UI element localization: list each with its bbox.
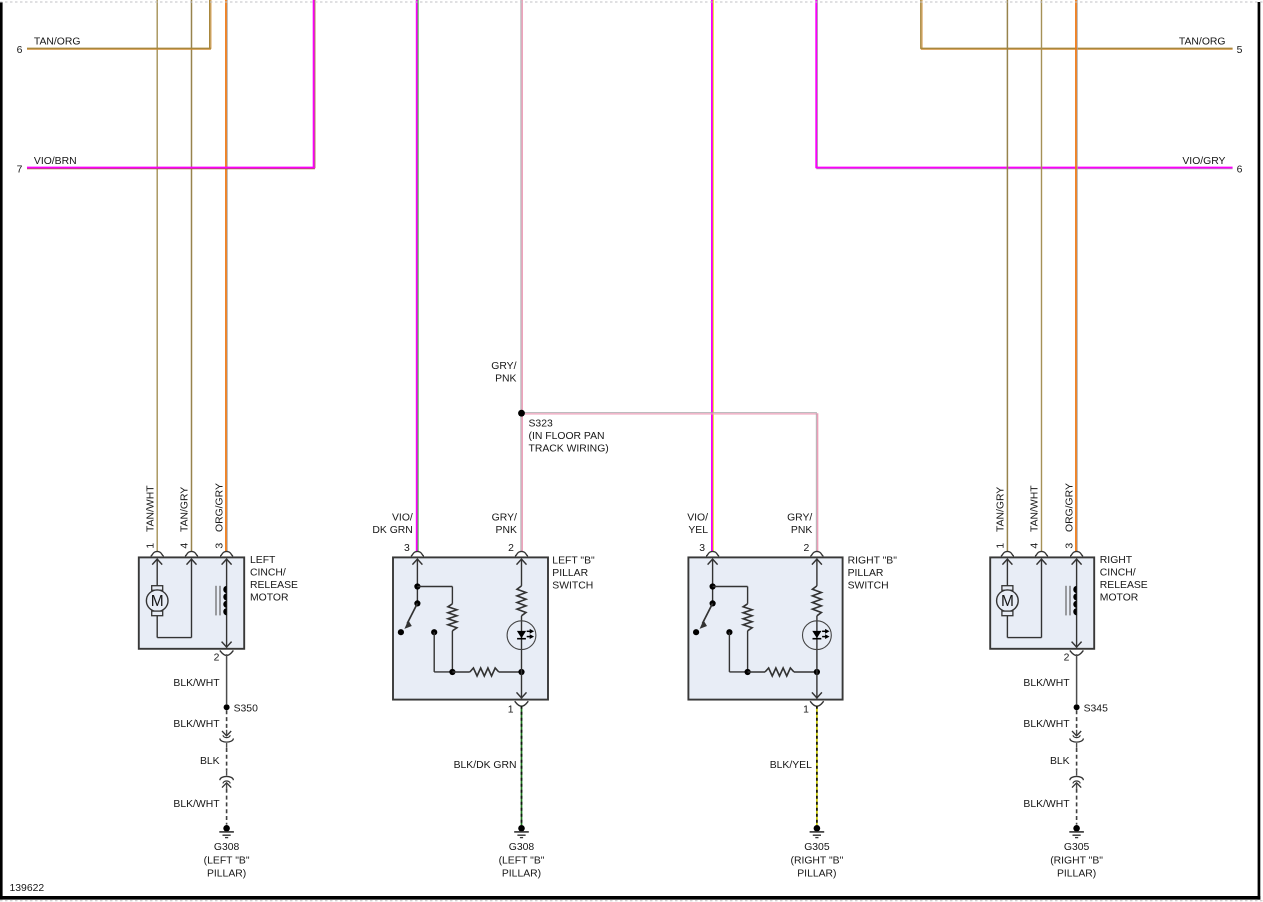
svg-text:G308: G308	[214, 842, 240, 853]
svg-text:RELEASE: RELEASE	[1100, 580, 1148, 591]
svg-text:PNK: PNK	[495, 374, 516, 385]
svg-text:139622: 139622	[10, 883, 45, 894]
svg-text:BLK: BLK	[200, 756, 220, 767]
svg-text:PILLAR): PILLAR)	[1057, 869, 1096, 880]
svg-text:ORG/GRY: ORG/GRY	[215, 483, 226, 532]
svg-text:RIGHT: RIGHT	[1100, 555, 1133, 566]
svg-text:GRY/: GRY/	[491, 361, 516, 372]
svg-text:TRACK WIRING): TRACK WIRING)	[529, 444, 609, 455]
svg-text:VIO/BRN: VIO/BRN	[34, 156, 77, 167]
svg-text:GRY/: GRY/	[492, 513, 517, 524]
svg-text:6: 6	[17, 45, 23, 56]
svg-text:G305: G305	[804, 842, 830, 853]
svg-text:PILLAR: PILLAR	[552, 568, 588, 579]
svg-text:1: 1	[996, 543, 1007, 549]
svg-text:1: 1	[145, 543, 156, 549]
svg-text:1: 1	[803, 704, 809, 715]
svg-text:3: 3	[1065, 543, 1076, 549]
svg-text:MOTOR: MOTOR	[1100, 592, 1139, 603]
svg-text:2: 2	[1064, 652, 1070, 663]
svg-text:CINCH/: CINCH/	[1100, 567, 1136, 578]
svg-text:3: 3	[699, 543, 705, 554]
svg-text:TAN/WHT: TAN/WHT	[145, 485, 156, 532]
svg-text:PILLAR): PILLAR)	[502, 869, 541, 880]
svg-text:VIO/: VIO/	[687, 513, 708, 524]
svg-text:TAN/WHT: TAN/WHT	[1030, 485, 1041, 532]
svg-text:G305: G305	[1064, 842, 1090, 853]
svg-text:PILLAR): PILLAR)	[207, 869, 246, 880]
svg-text:RELEASE: RELEASE	[250, 580, 298, 591]
svg-text:VIO/: VIO/	[392, 513, 413, 524]
svg-text:4: 4	[1030, 543, 1041, 549]
svg-text:2: 2	[214, 652, 220, 663]
svg-text:SWITCH: SWITCH	[552, 580, 593, 591]
svg-text:TAN/GRY: TAN/GRY	[996, 487, 1007, 532]
svg-text:2: 2	[804, 543, 810, 554]
svg-text:PILLAR): PILLAR)	[797, 869, 836, 880]
svg-text:PNK: PNK	[496, 525, 517, 536]
svg-text:2: 2	[508, 543, 514, 554]
svg-text:(IN FLOOR PAN: (IN FLOOR PAN	[529, 431, 605, 442]
svg-text:BLK/WHT: BLK/WHT	[1023, 719, 1070, 730]
svg-text:3: 3	[215, 543, 226, 549]
svg-text:LEFT: LEFT	[250, 555, 276, 566]
svg-text:S323: S323	[529, 419, 553, 430]
svg-text:BLK/WHT: BLK/WHT	[173, 719, 220, 730]
svg-text:(RIGHT "B": (RIGHT "B"	[1050, 855, 1103, 866]
svg-text:TAN/ORG: TAN/ORG	[1179, 37, 1226, 48]
svg-text:BLK/DK GRN: BLK/DK GRN	[454, 760, 517, 771]
svg-text:M: M	[151, 593, 164, 610]
svg-text:YEL: YEL	[688, 525, 708, 536]
svg-text:SWITCH: SWITCH	[848, 580, 889, 591]
svg-text:TAN/ORG: TAN/ORG	[34, 37, 81, 48]
svg-text:VIO/GRY: VIO/GRY	[1182, 156, 1225, 167]
svg-text:BLK/YEL: BLK/YEL	[770, 760, 812, 771]
svg-text:S345: S345	[1084, 703, 1108, 714]
svg-text:BLK/WHT: BLK/WHT	[1023, 799, 1070, 810]
svg-text:1: 1	[508, 704, 514, 715]
svg-text:3: 3	[404, 543, 410, 554]
svg-text:ORG/GRY: ORG/GRY	[1065, 483, 1076, 532]
svg-text:BLK: BLK	[1050, 756, 1070, 767]
svg-text:S350: S350	[234, 703, 258, 714]
svg-text:TAN/GRY: TAN/GRY	[180, 487, 191, 532]
svg-text:5: 5	[1237, 45, 1243, 56]
svg-text:(LEFT "B": (LEFT "B"	[204, 855, 250, 866]
svg-text:CINCH/: CINCH/	[250, 567, 286, 578]
svg-text:RIGHT "B": RIGHT "B"	[848, 555, 898, 566]
svg-text:BLK/WHT: BLK/WHT	[1023, 678, 1070, 689]
svg-text:BLK/WHT: BLK/WHT	[173, 678, 220, 689]
svg-text:7: 7	[17, 165, 23, 176]
svg-text:4: 4	[180, 543, 191, 549]
svg-text:DK GRN: DK GRN	[372, 525, 412, 536]
svg-text:BLK/WHT: BLK/WHT	[173, 799, 220, 810]
svg-text:G308: G308	[509, 842, 535, 853]
svg-text:PILLAR: PILLAR	[848, 568, 884, 579]
svg-text:M: M	[1001, 593, 1014, 610]
svg-text:6: 6	[1237, 165, 1243, 176]
svg-text:GRY/: GRY/	[787, 513, 812, 524]
svg-text:(RIGHT "B": (RIGHT "B"	[791, 855, 844, 866]
svg-text:LEFT "B": LEFT "B"	[552, 555, 595, 566]
svg-text:(LEFT "B": (LEFT "B"	[499, 855, 545, 866]
svg-text:PNK: PNK	[791, 525, 812, 536]
svg-text:MOTOR: MOTOR	[250, 592, 289, 603]
